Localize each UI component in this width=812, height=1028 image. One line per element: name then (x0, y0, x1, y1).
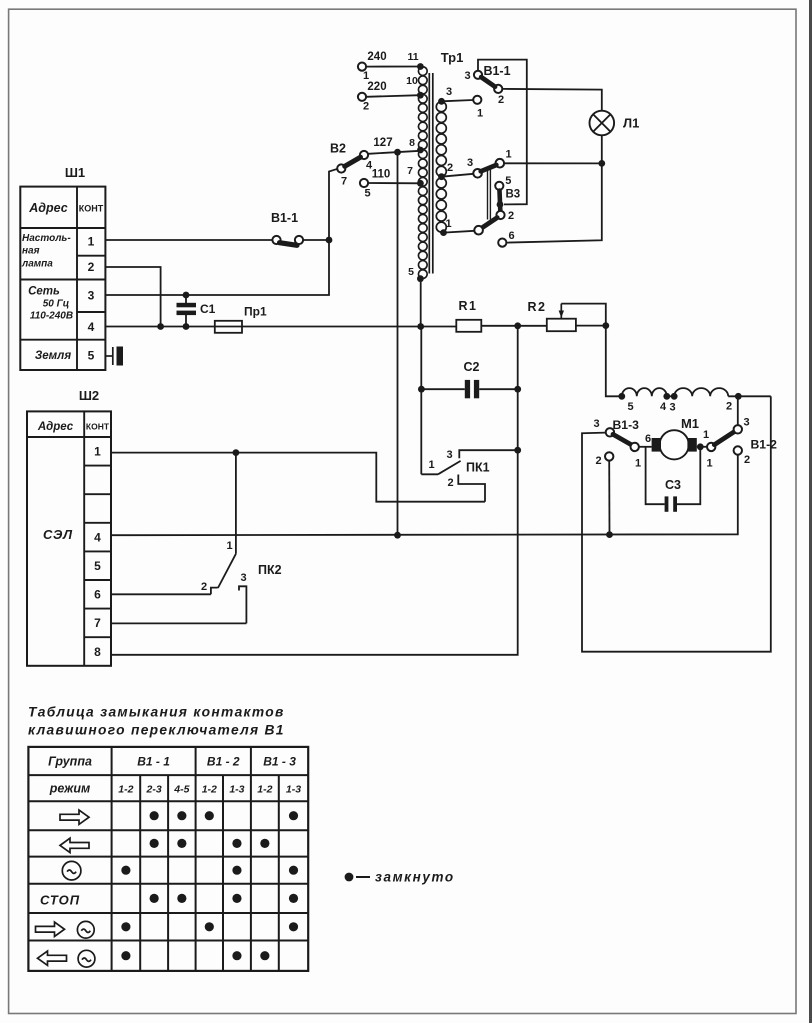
svg-text:1-2: 1-2 (257, 784, 272, 796)
svg-text:КОНТ: КОНТ (79, 204, 104, 214)
wire motor to В1-2-1 (697, 446, 707, 448)
svg-text:Группа: Группа (48, 755, 92, 769)
switch В1-1 contacts 3-2 (464, 64, 510, 106)
junction tap5/mains (417, 323, 424, 330)
svg-text:Тр1: Тр1 (441, 50, 464, 65)
switch ПК1 (421, 447, 521, 502)
svg-text:Ш1: Ш1 (65, 165, 85, 180)
resistor R1 (456, 299, 481, 332)
svg-text:2: 2 (508, 210, 514, 222)
terminal 1 (secondary tap 3) (442, 86, 484, 120)
inductor windings 5-4 / 3-2 (618, 388, 770, 413)
svg-text:127: 127 (373, 137, 392, 149)
junction 127 net (394, 149, 401, 156)
junction lamp node (598, 160, 605, 167)
svg-text:5: 5 (505, 175, 511, 187)
svg-text:6: 6 (94, 588, 101, 602)
svg-text:Таблица замыкания контактов: Таблица замыкания контактов (28, 705, 285, 720)
svg-text:220: 220 (367, 81, 386, 93)
svg-text:2: 2 (498, 94, 504, 106)
svg-text:5: 5 (408, 266, 414, 278)
wire tap 2 to В3-3 (442, 162, 474, 177)
svg-text:СТОП: СТОП (40, 892, 80, 907)
svg-text:11: 11 (407, 51, 418, 63)
wire R2 to output node (576, 325, 606, 327)
svg-text:110-240В: 110-240В (30, 311, 73, 322)
svg-text:Ш2: Ш2 (79, 388, 99, 403)
svg-text:3: 3 (464, 70, 470, 82)
svg-text:1: 1 (94, 445, 101, 459)
junction В1-1/В2 (326, 237, 333, 244)
junction В2net/Ш2-4 (394, 532, 401, 539)
svg-text:R2: R2 (528, 300, 547, 314)
svg-text:1: 1 (635, 458, 641, 470)
wire inductor to В1-3-3 loop (582, 396, 771, 651)
svg-text:Настоль-: Настоль- (22, 233, 71, 244)
wire R2 wiper to output (561, 304, 606, 326)
svg-text:2: 2 (88, 260, 95, 274)
wire Ш1-3 to В2-7 (105, 169, 337, 295)
mode icon: spin (62, 861, 81, 880)
svg-text:1: 1 (703, 429, 709, 441)
wire Ш1-1 to В1-1 (105, 239, 276, 241)
svg-text:5: 5 (94, 559, 101, 573)
wire mains node down (C2 left / ПК1-1) (420, 327, 422, 475)
svg-text:6: 6 (645, 433, 651, 445)
capacitor C1 (177, 292, 216, 330)
wire В2-5 to tap 7 (110) (360, 169, 420, 200)
svg-text:Пр1: Пр1 (244, 305, 267, 319)
transformer secondary winding I (436, 102, 446, 177)
wire В1-1-2 to lamp (502, 89, 602, 111)
rheostat R2 (528, 300, 576, 331)
svg-text:клавишного переключателя В1: клавишного переключателя В1 (28, 723, 285, 738)
legend: замкнуто (345, 870, 455, 885)
switch В3 (467, 149, 520, 247)
svg-text:замкнуто: замкнуто (375, 870, 455, 885)
svg-text:3: 3 (593, 418, 599, 430)
svg-text:В1-1: В1-1 (271, 211, 298, 225)
lamp Л1 (590, 111, 640, 136)
svg-text:ПК2: ПК2 (258, 563, 282, 577)
svg-text:110: 110 (372, 169, 391, 181)
svg-text:Л1: Л1 (623, 116, 639, 131)
wire В3-1 to lamp node (504, 162, 602, 164)
connector Ш2 (27, 388, 111, 666)
svg-text:КОНТ: КОНТ (86, 422, 110, 432)
svg-text:5: 5 (364, 188, 370, 200)
svg-text:1: 1 (88, 235, 95, 249)
mode icon: forward+spin (36, 921, 95, 938)
motor М1 (652, 416, 709, 459)
svg-text:1: 1 (428, 459, 434, 471)
mode icon: reverse (60, 838, 89, 852)
junction В1-3-2/Ш2-4 (606, 531, 613, 538)
svg-text:ная: ная (22, 246, 40, 257)
svg-text:4: 4 (88, 320, 95, 334)
table title (28, 705, 285, 738)
wire mains line (Ш1-4 to R1) (105, 326, 456, 328)
svg-text:3: 3 (743, 417, 749, 429)
wire tap 1 to В3-4 (444, 218, 475, 233)
svg-text:В1-1: В1-1 (483, 64, 510, 78)
svg-text:Земля: Земля (35, 350, 71, 362)
svg-text:В3: В3 (506, 189, 521, 201)
svg-text:3: 3 (467, 157, 473, 169)
svg-text:8: 8 (94, 645, 101, 659)
svg-text:лампа: лампа (21, 259, 53, 270)
svg-text:режим: режим (49, 782, 91, 796)
table В1 grid (28, 747, 308, 971)
wire В1-3-1 to motor (639, 446, 652, 448)
switch В1-1 contacts 5-4 (271, 211, 303, 245)
switch В1-2 (706, 417, 777, 470)
transformer primary taps 11,10,8,7,5 (406, 51, 424, 282)
svg-text:5: 5 (88, 349, 95, 363)
svg-text:3: 3 (669, 402, 675, 414)
svg-text:3: 3 (240, 572, 246, 584)
capacitor C3 (646, 447, 701, 512)
svg-text:4-5: 4-5 (173, 784, 189, 796)
svg-text:С2: С2 (464, 360, 480, 374)
svg-text:2: 2 (744, 454, 750, 466)
svg-text:1-2: 1-2 (202, 784, 217, 796)
svg-text:4: 4 (94, 530, 101, 544)
wire node down to ПК1-3 / Ш2-8 (111, 326, 518, 655)
junction Ш2-1/ПК2 (233, 449, 240, 456)
svg-text:Адрес: Адрес (28, 201, 67, 215)
svg-text:3: 3 (446, 449, 452, 461)
svg-text:2: 2 (447, 477, 453, 489)
svg-text:1-3: 1-3 (229, 784, 244, 796)
junction Ш1-2/mains (157, 323, 164, 330)
svg-text:3: 3 (88, 289, 95, 303)
svg-text:В1-3: В1-3 (613, 418, 640, 432)
svg-text:240: 240 (367, 51, 386, 63)
svg-text:10: 10 (406, 75, 418, 87)
wire В1-2-3 to inductor (737, 396, 739, 425)
svg-text:В1 - 2: В1 - 2 (207, 755, 240, 769)
wire ПК2-3 to Ш2-7 (111, 622, 246, 624)
switch В1-3 (593, 418, 651, 470)
svg-text:3: 3 (446, 86, 452, 98)
wire R2 node to inductor (606, 326, 622, 397)
mode label СТОП (40, 892, 80, 907)
wire Ш2-4 bus (111, 455, 738, 536)
svg-text:2: 2 (595, 455, 601, 467)
svg-text:С1: С1 (200, 302, 216, 316)
svg-text:1: 1 (445, 218, 451, 230)
terminal 240 (pin 1) (358, 51, 420, 82)
mode icon: forward (60, 810, 89, 824)
transformer Тр1 primary winding (418, 67, 427, 279)
secondary taps 3,2,1 (438, 98, 447, 236)
wire lamp to node (601, 135, 603, 163)
mode icon: reverse+spin (38, 950, 95, 967)
svg-text:1-2: 1-2 (118, 784, 133, 796)
svg-text:7: 7 (407, 165, 413, 177)
wire R1 to R2 (481, 325, 547, 327)
svg-text:7: 7 (94, 616, 101, 630)
svg-text:В1 - 3: В1 - 3 (263, 755, 296, 769)
transformer Тр1 label (441, 50, 464, 65)
switch В2 (330, 142, 373, 188)
svg-text:1: 1 (226, 540, 232, 552)
svg-text:1: 1 (505, 149, 511, 161)
wire Ш1-2 to mains line (105, 267, 160, 327)
svg-text:В1-2: В1-2 (751, 438, 778, 452)
svg-text:7: 7 (341, 176, 347, 188)
svg-text:В1 - 1: В1 - 1 (137, 755, 170, 769)
svg-text:М1: М1 (681, 416, 699, 431)
ground (Земля) (105, 347, 123, 366)
svg-text:2: 2 (447, 162, 453, 174)
wire В3-6 to lamp node (506, 163, 601, 242)
junction R1-R2/C2 node (514, 322, 521, 329)
terminal 220 (pin 2) (358, 81, 420, 113)
svg-text:4: 4 (660, 401, 667, 413)
wire 127 net to Ш2-4 (397, 152, 399, 535)
wire tap 5 down (420, 279, 422, 327)
svg-text:ПК1: ПК1 (466, 461, 490, 475)
svg-text:R1: R1 (459, 299, 478, 313)
transformer core (429, 73, 433, 274)
wire В1-1-3 to В3 net (478, 60, 527, 205)
svg-text:2: 2 (363, 101, 369, 113)
wire ПК2-2 to Ш2-6 (111, 593, 211, 595)
capacitor C2 (418, 360, 521, 398)
svg-text:2: 2 (726, 401, 732, 413)
svg-text:2-3: 2-3 (146, 784, 162, 796)
closed-contact dots (121, 811, 298, 960)
svg-text:С3: С3 (665, 478, 681, 492)
svg-text:1: 1 (477, 108, 483, 120)
wire В2-4 to tap 8 (127) (368, 151, 420, 154)
label 127 (373, 137, 392, 149)
svg-text:СЭЛ: СЭЛ (43, 527, 73, 542)
wire ПК1-2 to Ш2-1 (111, 453, 485, 502)
wire В1-3-2 down (608, 461, 610, 535)
switch ПК2 (201, 453, 282, 624)
svg-text:2: 2 (201, 581, 207, 593)
wire В1-1 to net B2-7 (303, 239, 329, 241)
connector Ш1 (20, 165, 105, 370)
table headers (48, 755, 301, 796)
svg-text:5: 5 (627, 401, 633, 413)
svg-text:В2: В2 (330, 142, 346, 156)
svg-text:Адрес: Адрес (37, 421, 74, 433)
junction motor/C3 right (697, 443, 704, 450)
svg-text:Сеть: Сеть (28, 286, 60, 298)
svg-text:8: 8 (409, 137, 415, 149)
svg-text:50 Гц: 50 Гц (43, 299, 70, 310)
transformer secondary winding II (436, 178, 446, 232)
junction R2 output (602, 322, 609, 329)
svg-text:1-3: 1-3 (286, 784, 301, 796)
svg-text:6: 6 (508, 230, 514, 242)
svg-text:1: 1 (706, 457, 712, 469)
fuse Пр1 (215, 305, 267, 333)
